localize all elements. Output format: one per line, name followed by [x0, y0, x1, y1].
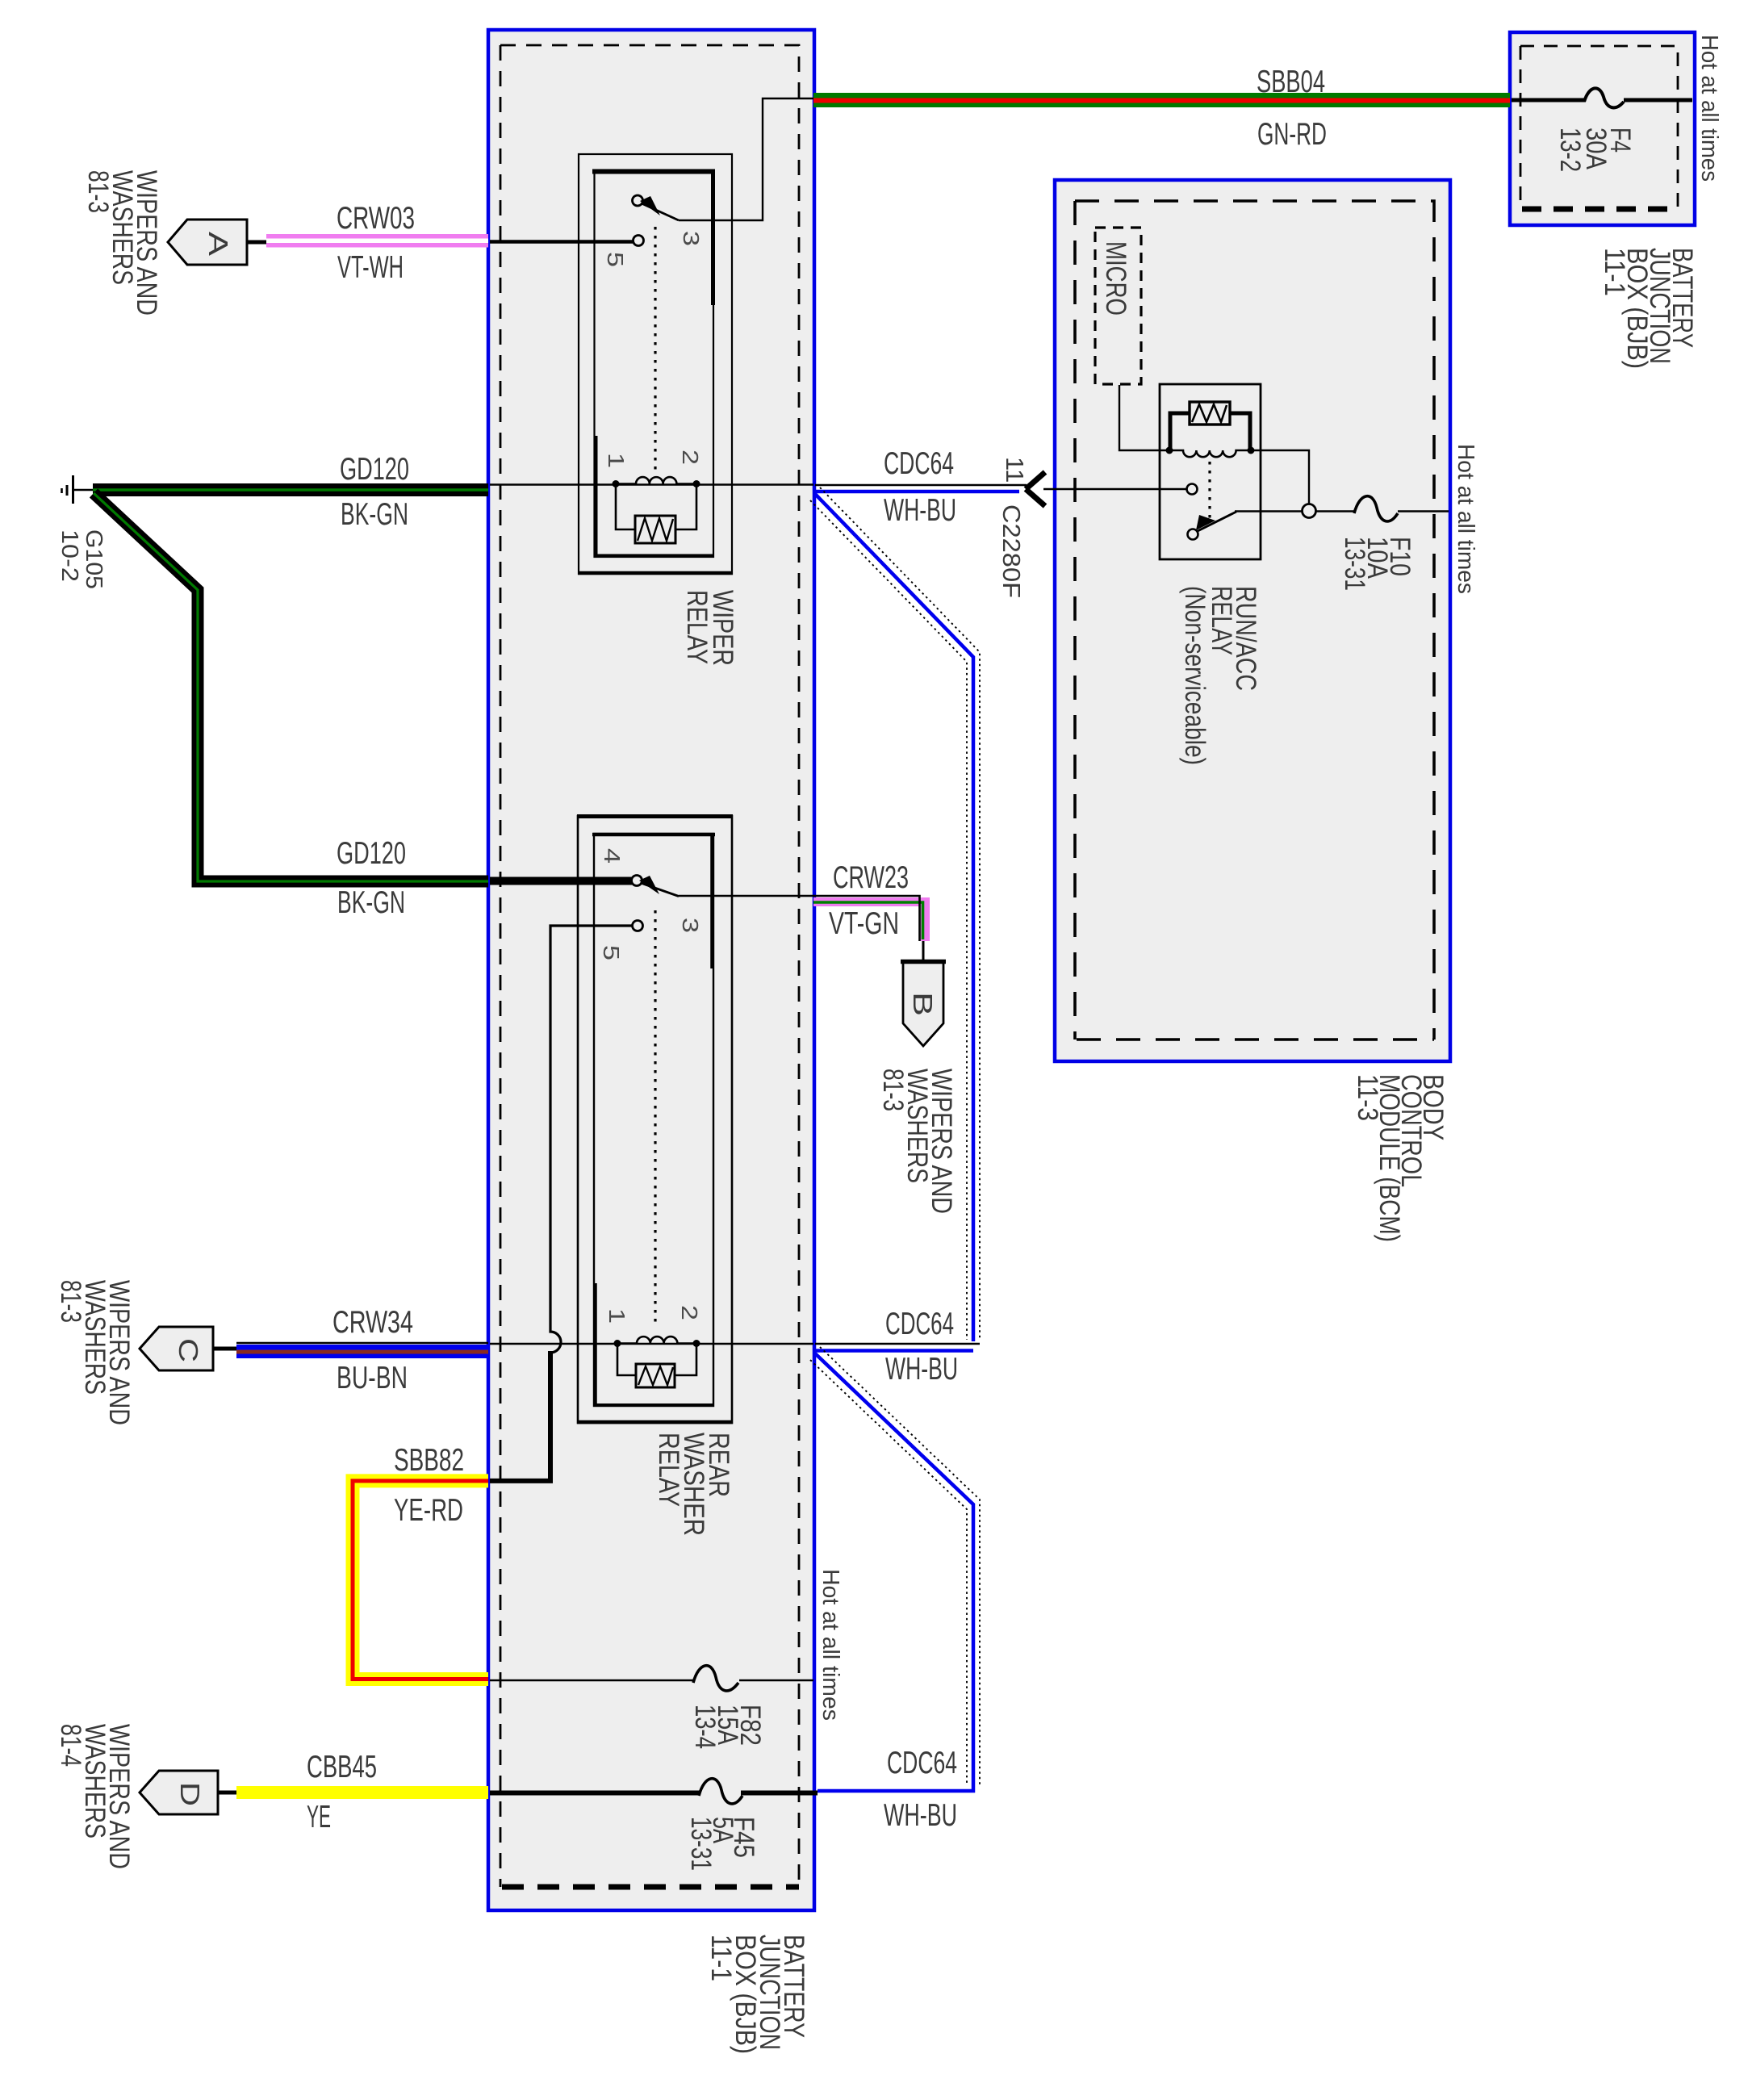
wire F82 feed inside BJB — [490, 1680, 694, 1682]
wire coil row inside BJB (GD120 / CDC64 node) — [490, 483, 813, 485]
wire CRW03 VT-WH (violet with white tracer) — [266, 234, 488, 248]
svg-text:5: 5 — [603, 252, 628, 267]
svg-text:Hot at all times: Hot at all times — [1453, 444, 1478, 594]
svg-text:YE-RD: YE-RD — [394, 1493, 463, 1528]
svg-text:2: 2 — [677, 1305, 702, 1320]
wiper relay (inner case) — [595, 170, 714, 557]
wire rear coil row inside BJB (CRW34 / CDC64 node) — [490, 1343, 813, 1345]
wiper relay coil winding — [616, 477, 696, 483]
svg-text:WH-BU: WH-BU — [884, 1798, 957, 1833]
wire CRW23 VT-GN (violet with green tracer) — [813, 896, 930, 941]
rear washer relay (inner case) — [594, 834, 713, 1406]
run/acc relay coil winding — [1169, 450, 1251, 457]
wire SBB04 GN-RD — [813, 93, 1510, 107]
svg-text:C2280F: C2280F — [997, 504, 1026, 598]
wire CRW23 to rear relay pin 3 (inside BJB) — [679, 895, 813, 897]
rear washer relay armature dotted line — [654, 910, 656, 1324]
wire fuse F10 to BCM edge — [1398, 510, 1449, 512]
wire CDC64 WH-BU (top pair to C2280F) — [815, 485, 1027, 492]
run/acc relay armature dotted line — [1208, 462, 1211, 523]
svg-text:13-31: 13-31 — [1339, 537, 1370, 591]
rear washer relay pin 4 terminal — [632, 876, 642, 886]
wire rear washer relay pin 5 to SBB82 (with hop over CRW34) — [550, 926, 633, 1353]
svg-text:Hot at all times: Hot at all times — [1696, 35, 1722, 182]
connector A stub wire — [247, 241, 267, 245]
svg-text:A: A — [203, 232, 233, 256]
connector C2280F arrow (pin 11) — [1026, 472, 1045, 506]
svg-text:B: B — [908, 992, 938, 1016]
wire F45 feed inside BJB — [490, 1791, 700, 1796]
connector C stub wire — [213, 1347, 237, 1351]
fuse F45 element symbol — [699, 1779, 742, 1804]
wire stub to connector B — [922, 941, 925, 962]
run/acc relay control terminal — [1187, 484, 1198, 495]
wire CDC64 WH-BU (middle pair) — [815, 1344, 980, 1351]
wiper relay (outer case) — [579, 154, 732, 574]
label WIPERS AND WASHERS 81-3 (A) — [82, 170, 162, 316]
connector B (to WIPERS AND WASHERS 81-3) — [903, 961, 943, 1046]
wiper relay coil suppression resistor R — [635, 516, 675, 543]
wire CRW34 BU-BN (blue with brown tracer) — [236, 1343, 488, 1358]
label WIPERS AND WASHERS 81-4 (D) — [55, 1724, 135, 1869]
BJB top-right inner dashed border — [1520, 46, 1678, 208]
ground G105 — [62, 475, 94, 504]
wire WH-BU harness diagonal 1 — [810, 487, 980, 1341]
svg-text:VT-GN: VT-GN — [829, 906, 899, 941]
svg-text:GN-RD: GN-RD — [1257, 117, 1327, 152]
svg-text:3: 3 — [679, 231, 704, 246]
run/acc relay switch terminal — [1188, 529, 1198, 540]
battery junction box BJB (top right, fuse F4 box) — [1510, 32, 1695, 225]
wiper relay switch arm — [642, 203, 679, 220]
svg-text:13-2: 13-2 — [1554, 128, 1586, 172]
label WIPERS AND WASHERS 81-3 (B) — [877, 1069, 957, 1214]
wire SBB82 YE-RD (yellow with red tracer) — [353, 1481, 488, 1680]
BCM inner dashed border — [1075, 201, 1434, 1040]
wiper relay pin 3 terminal — [633, 195, 643, 206]
svg-text:11-1: 11-1 — [705, 1935, 737, 1981]
wire switch to fuse F10 — [1235, 510, 1303, 512]
connector D (to WIPERS AND WASHERS 81-4) — [140, 1771, 218, 1814]
label BODY CONTROL MODULE (BCM) 11-3 — [1352, 1074, 1449, 1242]
svg-text:CDC64: CDC64 — [884, 446, 954, 481]
connector C (to WIPERS AND WASHERS 81-3) — [140, 1327, 213, 1370]
wire WH-BU harness diagonal 2 down to F45 feed — [810, 1347, 980, 1791]
wire MICRO to relay coil — [1119, 385, 1169, 450]
label RUN/ACC RELAY (Non-serviceable) — [1179, 586, 1261, 765]
label BATTERY JUNCTION BOX (BJB) 11-1 (bottom) — [705, 1935, 809, 2054]
wiper relay coil pin 2 terminal — [693, 480, 700, 487]
connector A (to WIPERS AND WASHERS 81-3) — [168, 220, 247, 265]
connector D stub wire — [218, 1791, 237, 1795]
run/acc relay suppression resistor R — [1190, 402, 1230, 425]
svg-text:YE: YE — [307, 1800, 331, 1834]
rear washer relay pin 5 terminal — [633, 921, 643, 931]
svg-text:13-4: 13-4 — [689, 1705, 721, 1749]
rear washer relay coil suppression resistor R — [636, 1364, 675, 1387]
wire fuse node to fuse F10 — [1316, 510, 1355, 512]
run/acc relay switch arm — [1198, 512, 1236, 531]
svg-text:CRW34: CRW34 — [332, 1305, 413, 1340]
svg-text:G105: G105 — [81, 529, 107, 589]
wire C2280F pin 11 into BCM — [1043, 488, 1186, 490]
wire coil to fuse node — [1251, 450, 1309, 504]
battery junction box BJB (left, module outline) — [488, 30, 814, 1910]
svg-text:RELAY: RELAY — [653, 1433, 684, 1507]
run/acc relay (case) — [1160, 384, 1261, 559]
wire CBB45 YE (yellow) — [236, 1786, 488, 1799]
rear washer relay coil winding — [617, 1337, 696, 1343]
svg-text:13-31: 13-31 — [685, 1817, 717, 1871]
wire GD120 inside BJB to pin 4 — [490, 877, 632, 885]
svg-text:11-1: 11-1 — [1599, 248, 1630, 296]
svg-text:1: 1 — [604, 453, 629, 468]
BJB top-right inner dashed border bottom (heavy) — [1522, 207, 1678, 212]
fuse F10 element symbol — [1354, 496, 1398, 521]
svg-text:3: 3 — [678, 918, 703, 933]
svg-text:81-3: 81-3 — [82, 170, 114, 213]
svg-text:WH-BU: WH-BU — [885, 1352, 958, 1387]
wiper relay coil pin 1 terminal — [613, 480, 620, 487]
svg-text:81-4: 81-4 — [55, 1724, 86, 1767]
rear washer relay (outer case) — [578, 816, 732, 1423]
svg-text:SBB82: SBB82 — [394, 1443, 464, 1478]
svg-text:RELAY: RELAY — [681, 590, 713, 664]
svg-text:5: 5 — [599, 945, 624, 960]
svg-text:BK-GN: BK-GN — [341, 497, 408, 532]
fuse F4 30A feed wire — [1512, 98, 1585, 102]
svg-text:1: 1 — [604, 1308, 629, 1324]
wire GD120 BK-GN (ground run, black with green tracer) — [93, 490, 488, 881]
label WIPERS AND WASHERS 81-3 (C) — [55, 1280, 135, 1425]
svg-text:Hot at all times: Hot at all times — [818, 1569, 843, 1721]
BJB left inner dashed border bottom (heavy) — [502, 1885, 799, 1890]
svg-text:10-2: 10-2 — [56, 529, 82, 582]
rear washer relay switch arm — [641, 883, 679, 897]
svg-text:81-3: 81-3 — [877, 1069, 909, 1111]
fuse F82 element symbol — [693, 1666, 738, 1691]
svg-text:VT-WH: VT-WH — [337, 250, 404, 285]
rear washer relay coil pin 2 terminal — [693, 1340, 700, 1347]
svg-text:81-3: 81-3 — [55, 1280, 86, 1323]
svg-text:CRW03: CRW03 — [337, 201, 415, 236]
svg-text:D: D — [175, 1782, 205, 1806]
svg-text:GD120: GD120 — [340, 452, 409, 487]
fuse F4 element symbol — [1584, 88, 1624, 107]
svg-text:CDC64: CDC64 — [887, 1746, 957, 1780]
svg-text:CRW23: CRW23 — [833, 860, 909, 895]
label BATTERY JUNCTION BOX (BJB) 11-1 (top right) — [1599, 248, 1698, 369]
MICRO (dashed box) — [1095, 228, 1141, 384]
svg-text:GD120: GD120 — [337, 836, 406, 871]
body control module BCM (module outline) — [1055, 180, 1450, 1061]
svg-text:BK-GN: BK-GN — [337, 885, 405, 920]
svg-text:CBB45: CBB45 — [307, 1750, 377, 1784]
svg-text:(Non-serviceable): (Non-serviceable) — [1179, 586, 1211, 765]
rear washer relay coil pin 1 terminal — [614, 1340, 621, 1347]
wiper relay pin 5 terminal — [634, 236, 644, 246]
svg-text:4: 4 — [600, 848, 625, 864]
run/acc relay coil pin terminals — [1166, 447, 1173, 454]
BJB left inner dashed border — [500, 45, 799, 1887]
svg-text:BU-BN: BU-BN — [337, 1361, 408, 1395]
svg-text:C: C — [174, 1338, 203, 1362]
wire wiper relay pin 3 to SBB04 — [679, 98, 813, 220]
svg-text:WH-BU: WH-BU — [884, 493, 956, 528]
svg-text:SBB04: SBB04 — [1257, 65, 1325, 99]
svg-text:11-3: 11-3 — [1352, 1074, 1383, 1121]
svg-text:CDC64: CDC64 — [885, 1307, 954, 1341]
svg-text:11: 11 — [1001, 457, 1029, 483]
svg-text:MICRO: MICRO — [1100, 241, 1131, 316]
wire CRW03 inside BJB to pin 5 — [490, 240, 633, 244]
svg-text:2: 2 — [678, 450, 703, 465]
fuse F10 node terminal — [1303, 504, 1316, 518]
wiper relay armature dotted line — [654, 227, 656, 471]
